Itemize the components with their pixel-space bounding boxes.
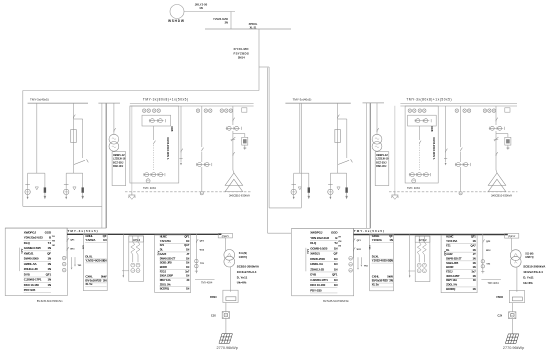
wire to load + arrow [329, 195, 331, 198]
svg-text:W11: W11 [357, 249, 362, 251]
CT group left feeder 2 [196, 164, 210, 166]
svg-text:GSBYQ: GSBYQ [525, 257, 534, 259]
svg-text:DLQ: DLQ [24, 241, 31, 245]
svg-text:FBMX: FBMX [210, 296, 217, 299]
breaker right tf [496, 152, 498, 156]
wire right feeder B bypass [338, 118, 347, 120]
surge arrester [73, 187, 76, 190]
svg-text:1N: 1N [47, 278, 51, 282]
wire right incomer [418, 126, 420, 140]
terminal block left square [242, 108, 247, 112]
svg-text:LZZBJ9-10: LZZBJ9-10 [113, 158, 126, 161]
disconnect switch left feeder B [74, 115, 76, 119]
svg-text:QF2: QF2 [486, 241, 491, 243]
wire left spare feeder [180, 106, 182, 158]
svg-text:1N: 1N [186, 256, 189, 260]
wire right feeder B upper [337, 103, 339, 129]
svg-text:TX3: TX3 [486, 263, 491, 265]
svg-text:1N: 1N [472, 274, 475, 278]
svg-text:YJV4 25A: YJV4 25A [446, 239, 457, 243]
fuse right feeder B [335, 130, 341, 143]
svg-text:TX3: TX3 [200, 263, 205, 265]
fuse left feeder B [71, 130, 77, 143]
outgoing meters left [195, 259, 198, 262]
wire left incomer [153, 126, 155, 140]
CT row bottom left [143, 174, 164, 176]
svg-text:BCDR: BCDR [160, 265, 167, 269]
wire to load + arrow [65, 195, 67, 198]
svg-text:DKX 10-160: DKX 10-160 [310, 283, 325, 287]
svg-text:2770.96kWp: 2770.96kWp [217, 346, 238, 350]
indicator lamps left row [143, 109, 146, 112]
svg-text:DDB: DDB [170, 127, 172, 132]
svg-text:ZDHGJ-JD: ZDHGJ-JD [24, 267, 39, 271]
svg-text:(T)XYY: (T)XYY [222, 236, 230, 238]
capacitor cabinet header right [415, 236, 430, 242]
breaker right spare [446, 149, 448, 153]
busway box right [509, 290, 524, 302]
wire right to transformer [511, 238, 513, 251]
disconnect left PT [114, 128, 116, 132]
svg-text:SCB10-2000kVA: SCB10-2000kVA [237, 265, 260, 269]
svg-text:30/2A 13/5P: 30/2A 13/5P [160, 274, 174, 278]
kWh meter [63, 189, 68, 194]
plug-in box left [222, 312, 229, 319]
svg-text:TMY-40X4: TMY-40X4 [201, 282, 213, 285]
disconnect right transformer feeder [496, 118, 498, 122]
svg-text:TMY-3x(40x5): TMY-3x(40x5) [30, 97, 49, 101]
outgoing wire right [482, 234, 484, 273]
svg-text:SGB1-JR5: SGB1-JR5 [160, 261, 173, 265]
svg-text:D, Yn11: D, Yn11 [523, 276, 534, 280]
svg-text:QF1: QF1 [332, 273, 338, 277]
CT group right transformer feeder [489, 127, 503, 129]
svg-text:CJ20/63-17P1: CJ20/63-17P1 [24, 278, 42, 282]
svg-text:1N: 1N [334, 278, 338, 282]
svg-text:BCZ-35/J: BCZ-35/J [376, 161, 387, 164]
wire right feeder 2 down [460, 167, 462, 191]
wire right tf mid [495, 131, 497, 170]
metering box right [375, 152, 389, 186]
svg-text:DW15-200/3 400V A: DW15-200/3 400V A [432, 138, 435, 160]
svg-text:1N: 1N [186, 274, 189, 278]
wire left transformer to busway [230, 267, 232, 292]
cubicle box right [405, 106, 438, 183]
svg-text:1N: 1N [334, 257, 338, 261]
svg-text:D, Yn11: D, Yn11 [237, 275, 248, 279]
outgoing marks left [195, 270, 198, 272]
svg-text:AA1: AA1 [20, 249, 23, 255]
relay ground arrow right [507, 145, 509, 148]
wire tee sub-drop left [329, 173, 331, 189]
kWh meter [328, 189, 333, 194]
svg-text:PDY-S35: PDY-S35 [24, 288, 36, 292]
svg-text:1N: 1N [472, 261, 475, 265]
CT group right feeder 2 [455, 164, 469, 166]
wire tee sub-drop left [27, 173, 29, 189]
panel feed wire left [5, 227, 106, 229]
wire overhead line [184, 11, 235, 13]
meter arrows left [71, 257, 73, 267]
wire left feeder A [36, 103, 38, 173]
meters column left [62, 256, 66, 260]
wire feed into right LV panel [268, 232, 291, 234]
ground left [131, 106, 133, 192]
wire left section top rail [23, 90, 259, 92]
svg-text:QF1: QF1 [46, 272, 52, 276]
terminal block right square [505, 108, 510, 112]
svg-text:XL 5x: XL 5x [85, 282, 92, 286]
svg-text:2770.96kWp: 2770.96kWp [503, 346, 524, 350]
cap feeder wire right [409, 235, 411, 276]
svg-text:1N: 1N [389, 259, 392, 263]
label left panel vertical AA1 [19, 248, 21, 272]
svg-text:ZDGL 5%: ZDGL 5% [160, 282, 172, 286]
svg-text:QF1: QF1 [184, 235, 189, 239]
svg-text:1N: 1N [186, 248, 189, 252]
transformer right delta-wye [488, 173, 506, 185]
svg-text:LZZBJ9-10: LZZBJ9-10 [376, 158, 389, 161]
wire jog to right feeders [259, 66, 269, 68]
svg-text:FZ1: FZ1 [160, 243, 165, 247]
svg-text:BCDRQ: BCDRQ [446, 287, 455, 291]
svg-text:XWDJ1: XWDJ1 [24, 251, 34, 255]
relay tap left [233, 133, 245, 135]
breaker cartridge [82, 187, 84, 192]
svg-text:YM: YM [52, 241, 55, 243]
svg-text:BCDR: BCDR [446, 265, 453, 269]
wire left to transformer [224, 238, 226, 251]
switch blade right feeder B [338, 160, 349, 164]
svg-text:DKX 10-160: DKX 10-160 [24, 283, 39, 287]
wire right busway to plug [511, 303, 513, 312]
svg-text:S11-(M): S11-(M) [239, 253, 247, 255]
svg-text:YDN 23x2-0/J3: YDN 23x2-0/J3 [310, 236, 329, 240]
svg-text:GGMB-0.5/25: GGMB-0.5/25 [24, 246, 42, 250]
relay tap right [496, 133, 508, 135]
wire left feeder B bypass [74, 118, 83, 120]
svg-text:DW45-225-ZT: DW45-225-ZT [446, 256, 462, 260]
instrument CTs right [415, 120, 430, 122]
svg-text:YM: YM [338, 241, 341, 243]
svg-text:1N: 1N [47, 262, 51, 266]
svg-text:RN2-10/J: RN2-10/J [376, 165, 387, 168]
svg-text:1N: 1N [186, 239, 189, 243]
breaker left feeder 2 [202, 148, 204, 152]
switch blade left feeder B [74, 160, 85, 164]
svg-text:Uk=6%: Uk=6% [523, 281, 533, 285]
svg-text:ZDHGJ-JD: ZDHGJ-JD [310, 267, 325, 271]
wire + arrow [44, 193, 46, 197]
svg-text:GGD: GGD [331, 231, 338, 235]
svg-text:QF1: QF1 [471, 235, 476, 239]
svg-text:1N: 1N [472, 256, 475, 260]
svg-text:QA7: QA7 [184, 243, 190, 247]
LV main busbar left [67, 233, 221, 235]
svg-text:1N: 1N [47, 267, 51, 271]
switch blade right tf [494, 139, 498, 141]
svg-text:YH: YH [338, 236, 341, 238]
svg-text:BV-5x35-SC47/WS3.5m: BV-5x35-SC47/WS3.5m [323, 300, 349, 303]
main breaker right QF1 [353, 238, 355, 242]
wire tee sub-drop right [308, 173, 310, 187]
svg-text:RN2-10/J: RN2-10/J [113, 165, 124, 168]
svg-text:(HY)L2: (HY)L2 [132, 239, 140, 242]
breaker cartridge [308, 187, 310, 192]
svg-text:RWY 13A: RWY 13A [160, 278, 171, 282]
wire long feeder down to right LV panel [267, 68, 269, 234]
metering box left [112, 152, 126, 186]
instrument box right [408, 115, 437, 126]
breaker right incomer [419, 141, 421, 145]
wire to load + arrow [27, 195, 29, 198]
wire left section left rail [22, 91, 24, 207]
svg-text:1N: 1N [47, 257, 51, 261]
svg-text:SCB10-2000kVA: SCB10-2000kVA [523, 265, 546, 269]
wire left to transformer [233, 170, 234, 173]
svg-text:TMY-40X4: TMY-40X4 [487, 282, 499, 285]
svg-text:2N: 2N [225, 21, 228, 25]
svg-text:1N: 1N [472, 287, 475, 291]
wire left tf mid [232, 131, 234, 170]
svg-text:FZGJ: FZGJ [446, 270, 453, 274]
wire right feeder B lower [337, 143, 339, 174]
svg-text:S11-(M): S11-(M) [525, 253, 533, 255]
main breaker left QF1 [67, 238, 69, 242]
svg-text:HWDL-5A: HWDL-5A [24, 262, 38, 266]
meter right feeder 2 bottom [459, 192, 462, 195]
indicator left triple [220, 109, 223, 112]
svg-text:YH: YH [52, 236, 55, 238]
wire right transformer feeder [495, 106, 497, 125]
cable pair left riser thin [101, 103, 103, 228]
svg-text:CJX: CJX [497, 315, 502, 318]
wire right section bottom rail [269, 207, 301, 209]
svg-text:DLQ: DLQ [310, 241, 317, 245]
feeder head box right [505, 234, 519, 239]
svg-text:XBW1-12: XBW1-12 [113, 153, 125, 157]
svg-text:GSBYQ: GSBYQ [239, 257, 248, 259]
wire right to transformer [496, 170, 497, 173]
transformer left delta-wye [225, 173, 243, 185]
wire left feeder 2 [201, 106, 203, 147]
disconnect switch right feeder B [338, 115, 340, 119]
main switch wire right [352, 228, 354, 258]
voltage transformer right PT circles [372, 134, 382, 144]
LV panel box2 right [370, 235, 394, 291]
riser hatch right [505, 334, 518, 344]
main switch wire left [66, 228, 68, 258]
svg-text:(T)XYY: (T)XYY [508, 236, 516, 238]
instrument CTs left [149, 120, 164, 122]
cable pair left cap [98, 102, 120, 104]
wire tee sub-drop left [65, 173, 67, 189]
svg-text:1N: 1N [186, 265, 189, 269]
svg-text:1N: 1N [472, 248, 475, 252]
wire drop to main box [230, 12, 232, 30]
breaker left spare [181, 149, 183, 153]
svg-text:HLMC: HLMC [160, 235, 167, 239]
transformer left circles [224, 250, 235, 261]
svg-text:10±2x2.5%-0.4: 10±2x2.5%-0.4 [523, 270, 543, 274]
bus right LV busbar TMY-3x(80x8) double line [400, 103, 517, 105]
svg-text:TMY- 40X4: TMY- 40X4 [143, 186, 156, 190]
cable pair right riser thin [365, 103, 367, 228]
wire left PT to meter box [113, 150, 115, 152]
meter arrows right [357, 257, 359, 267]
LV panel box3 left [155, 235, 191, 293]
breaker cartridge [345, 187, 347, 192]
outgoing meters right [481, 260, 484, 263]
svg-text:CJX: CJX [211, 315, 216, 318]
wire main feeder down [258, 29, 260, 91]
svg-text:2N14: 2N14 [238, 55, 245, 59]
bus main distribution [205, 28, 291, 30]
cubicle box left [130, 106, 179, 183]
wire right transformer to busway [516, 267, 518, 292]
wire right feeder A tee [294, 172, 309, 174]
relay box left [242, 137, 248, 145]
svg-text:QF1: QF1 [70, 240, 75, 242]
wire right section feeder down [268, 67, 270, 208]
svg-text:2N: 2N [389, 279, 392, 283]
wire left busway to plug [225, 303, 227, 312]
wire left transformer feeder [232, 106, 234, 125]
wire left feeder 2 down [201, 167, 203, 191]
svg-text:GGMB-0.5/25: GGMB-0.5/25 [310, 246, 328, 250]
svg-text:JT: JT [473, 252, 476, 256]
svg-text:1N: 1N [186, 287, 189, 291]
svg-text:1N: 1N [103, 238, 106, 242]
svg-text:DL: DL [446, 248, 450, 252]
capacitor breakers zigzag right [417, 242, 421, 255]
svg-text:1N: 1N [47, 246, 51, 250]
svg-text:FBMX: FBMX [496, 296, 503, 299]
svg-text:W12: W12 [200, 250, 205, 252]
ground right [394, 106, 396, 192]
riser hatch left [219, 334, 233, 344]
relay ground arrow left [244, 145, 246, 148]
svg-text:2#SCB10-630kVA: 2#SCB10-630kVA [229, 194, 250, 198]
wire + arrow [82, 193, 84, 197]
svg-text:2#SCB10-630kVA: 2#SCB10-630kVA [491, 194, 512, 198]
relay box right [505, 137, 511, 145]
wire left feeder B upper [73, 103, 75, 129]
svg-text:ZPDXL: ZPDXL [249, 22, 258, 26]
CT row bottom right [409, 174, 430, 176]
wire right PT branch [376, 103, 378, 134]
breaker right feeder 2 [461, 148, 463, 152]
capacitor symbols right [417, 263, 421, 267]
capacitor cabinet header left [129, 236, 144, 242]
wire right section riser up to busbar [300, 103, 302, 208]
svg-text:ZDGL 5%: ZDGL 5% [446, 283, 458, 287]
indicator left single [196, 109, 199, 112]
LV panel box3 right [441, 235, 477, 293]
meter bottom right [412, 179, 416, 183]
svg-text:TMY-3x(40x5): TMY-3x(40x5) [293, 97, 312, 101]
svg-text:10±2x2.5%-0.4: 10±2x2.5%-0.4 [237, 270, 257, 274]
capacitor cabinet box right [415, 236, 430, 282]
svg-text:FZ1: FZ1 [446, 243, 451, 247]
svg-text:1N: 1N [389, 238, 392, 242]
wire right spare feeder [445, 106, 447, 158]
utility source G1 [170, 5, 184, 19]
breaker left tf [233, 152, 235, 156]
LV panel box1 right [292, 228, 354, 295]
breaker cartridge [44, 187, 46, 192]
svg-text:AA2Z: AA2Z [446, 252, 453, 256]
svg-text:2N: 2N [103, 278, 106, 282]
svg-text:Uk=6%: Uk=6% [237, 281, 247, 285]
svg-text:XWDJ1: XWDJ1 [310, 252, 320, 256]
svg-text:BV-5x35-SC47/WS3.5m: BV-5x35-SC47/WS3.5m [37, 300, 63, 303]
cable pair right riser thick [369, 103, 371, 228]
svg-text:TN1: TN1 [78, 265, 83, 267]
panel feed wire right [292, 227, 371, 229]
svg-text:RWY 13A: RWY 13A [446, 278, 457, 282]
wire right PT to meter box [376, 150, 378, 152]
cable pair left riser thick [105, 103, 107, 228]
bus left LV busbar TMY-3x(80x8) double line [130, 103, 254, 105]
indicator right single [455, 109, 458, 112]
svg-text:YDN 23x2-0/J3: YDN 23x2-0/J3 [24, 236, 43, 240]
meter bottom left [146, 179, 150, 183]
disconnect left transformer feeder [233, 118, 235, 122]
svg-text:QA7: QA7 [471, 243, 477, 247]
svg-text:YJV22A: YJV22A [372, 238, 383, 242]
svg-text:TMY-3x(50x5): TMY-3x(50x5) [354, 229, 385, 233]
svg-text:QF: QF [334, 252, 338, 256]
svg-text:HWDL-5A: HWDL-5A [310, 262, 324, 266]
wire tee sub-drop right [44, 173, 46, 187]
svg-text:DW45-2500: DW45-2500 [310, 257, 325, 261]
wire left feeder B tee [66, 172, 83, 174]
busway box left [223, 290, 238, 302]
wire right feeder B tee [330, 172, 346, 174]
svg-text:W11: W11 [70, 249, 75, 251]
svg-text:1N: 1N [334, 246, 338, 250]
svg-text:WSHDW: WSHDW [168, 19, 185, 23]
svg-text:XBW1-12: XBW1-12 [376, 153, 388, 157]
cap link stub right [408, 270, 415, 272]
svg-text:1N: 1N [334, 267, 338, 271]
cap feeder wire left [122, 234, 124, 275]
meters column right [349, 257, 353, 261]
svg-text:1N: 1N [47, 283, 51, 287]
voltage transformer left PT circles [109, 134, 119, 144]
svg-text:BCDRQ: BCDRQ [160, 287, 169, 291]
instrument box left [142, 115, 171, 126]
outgoing breaker left QF2 [196, 239, 198, 243]
svg-text:1N: 1N [472, 265, 475, 269]
wire tee sub-drop right [346, 173, 348, 187]
svg-text:SGB1-JR5: SGB1-JR5 [446, 261, 459, 265]
capacitor cabinet box left [129, 236, 144, 282]
label right panel vertical AA1 [305, 248, 307, 271]
svg-text:1N: 1N [103, 258, 106, 262]
wire left feeder A tee [28, 172, 45, 174]
svg-text:YJV4 25A: YJV4 25A [160, 239, 171, 243]
meter left feeder 2 bottom [200, 192, 203, 195]
disconnect right PT [377, 128, 379, 132]
surge arrester [298, 187, 301, 190]
indicator lamps right row [408, 109, 411, 112]
wire left section bottom rail [23, 205, 102, 207]
PE busbar left dashed [125, 191, 251, 193]
wire left plug to riser [225, 318, 227, 333]
plug-in box right [509, 312, 516, 319]
